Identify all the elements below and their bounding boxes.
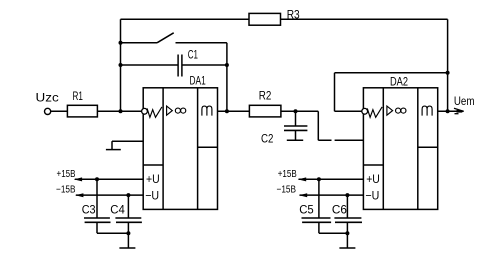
wire DA2 input bend vertical [317, 111, 319, 140]
svg-text:R2: R2 [259, 89, 272, 103]
op-amp DA1 divider 1 [162, 88, 164, 210]
symbol M output field DA1 [202, 106, 212, 116]
node C5 tap [317, 177, 321, 181]
symbol amplifier triangle DA1 [167, 106, 173, 115]
wire C2 upper stub [295, 111, 297, 126]
pin circle DA1 input [142, 108, 148, 114]
svg-text:DA2: DA2 [390, 75, 408, 89]
svg-text:+U: +U [146, 172, 160, 186]
resistor R3 [249, 13, 281, 25]
wire ground bus C5-C6 [319, 232, 348, 234]
wire C1 branch right [182, 64, 227, 66]
wire ground stem right [346, 233, 348, 248]
arrow output [454, 108, 464, 111]
op-amp DA1 left-column power divider [143, 164, 163, 166]
wire DA1 output [218, 110, 250, 112]
wire ground stem [127, 233, 129, 248]
svg-text:−U: −U [365, 188, 379, 202]
wire DA2 output [438, 110, 464, 112]
wire top feedback horizontal left of R3 [121, 18, 250, 20]
node DA2 feedback tap [446, 71, 450, 75]
resistor R2 [249, 105, 281, 117]
symbol amplifier triangle DA2 [387, 106, 393, 115]
svg-text:−U: −U [145, 188, 159, 202]
svg-text:+U: +U [366, 172, 380, 186]
capacitor C4 [115, 218, 141, 222]
wire switch branch left [121, 42, 158, 44]
node C1 left tap [119, 63, 123, 67]
resistor R1 [67, 105, 97, 117]
svg-text:C6: C6 [332, 203, 347, 217]
arrow -15V left [75, 193, 83, 197]
op-amp DA1 body [143, 88, 217, 210]
svg-text:C1: C1 [188, 48, 198, 62]
svg-text:C3: C3 [82, 202, 96, 216]
wire -U supply DA2 [300, 194, 364, 196]
wire C1 branch left [121, 64, 179, 66]
capacitor C2 [284, 126, 307, 130]
wire right vertical from top wire to output node [447, 19, 449, 111]
capacitor C3 [84, 218, 111, 222]
svg-text:+15В: +15В [278, 169, 297, 180]
wire left feedback vertical [120, 19, 122, 111]
svg-text:−15В: −15В [277, 184, 297, 195]
op-amp DA2 divider 1 [382, 88, 384, 210]
svg-text:C2: C2 [261, 132, 274, 146]
symbol infinity DA1 [175, 108, 180, 113]
wire DA2 feedback vertical [334, 73, 336, 112]
wire ground bus C3-C4 [97, 232, 128, 234]
arrow +15V left [74, 177, 82, 181]
symbol M output field DA2 [422, 106, 432, 116]
node output [446, 109, 450, 113]
node ground bus right [345, 231, 349, 235]
wire +U supply DA1 [75, 178, 143, 180]
op-amp DA2 divider 2 [417, 88, 419, 210]
wire DA2 feedback horizontal [335, 72, 448, 74]
svg-text:Uzc: Uzc [36, 91, 59, 105]
wire C5 lower stub [318, 222, 320, 233]
wire top feedback horizontal right of R3 [281, 18, 448, 20]
node C3 tap [95, 177, 99, 181]
node C4 tap [126, 193, 130, 197]
node switch tap [119, 41, 123, 45]
wire C4 down [127, 195, 129, 218]
node C2 tap [294, 109, 298, 113]
op-amp DA1 right-column divider [198, 146, 218, 148]
op-amp DA2 body [363, 88, 437, 210]
wire input to R1 [51, 110, 68, 112]
capacitor C6 [334, 218, 362, 222]
node ground bus [126, 231, 130, 235]
wire C6 lower stub [346, 222, 348, 233]
node C1 right tap [225, 63, 229, 67]
wire switch branch right [176, 42, 227, 44]
wire C6 down [346, 195, 348, 218]
op-amp DA1 divider 2 [197, 88, 199, 210]
wire -U supply DA1 [76, 194, 143, 196]
svg-text:R1: R1 [73, 89, 84, 103]
terminal input circle [45, 108, 51, 114]
svg-text:C5: C5 [299, 203, 314, 217]
node C6 tap [345, 193, 349, 197]
wire DA1 feedback vertical [226, 43, 228, 112]
wire C3 down [96, 179, 98, 218]
wire R2 to bend [281, 110, 318, 112]
node DA1 output feedback tap [225, 109, 229, 113]
wire C3 lower stub [96, 222, 98, 233]
wire R1 to DA1 input [97, 110, 141, 112]
arrow -15V right [299, 193, 307, 197]
wire DA1 second input [112, 140, 143, 142]
symbol infinity DA2 [396, 108, 401, 113]
wire +U supply DA2 [299, 178, 364, 180]
svg-text:−15В: −15В [56, 184, 76, 195]
node summing input DA1 [119, 109, 123, 113]
ground bar supply DA1 [119, 247, 135, 249]
switch SA arm [157, 33, 174, 43]
capacitor C5 [302, 218, 332, 222]
wire C4 lower stub [127, 222, 129, 233]
svg-text:DA1: DA1 [190, 74, 206, 88]
symbol W integrator DA1 [147, 107, 162, 117]
svg-text:Uem: Uem [454, 94, 475, 108]
wire C5 down [318, 179, 320, 218]
wire C2 lower stub [295, 130, 297, 140]
wire DA2 second input horizontal [318, 139, 363, 141]
svg-text:C4: C4 [110, 202, 125, 216]
ground bar DA1 input [106, 149, 121, 151]
wire DA2 feedback to input [335, 110, 362, 112]
arrow +15V right [298, 177, 306, 181]
pin circle DA2 input [362, 108, 368, 114]
op-amp DA2 left-column power divider [363, 164, 383, 166]
ground bar supply DA2 [339, 247, 355, 249]
ground bar C2 [287, 139, 303, 141]
wire ground riser DA1 input [111, 141, 113, 149]
op-amp DA2 right-column divider [418, 146, 438, 148]
svg-text:+15В: +15В [57, 169, 76, 180]
capacitor C1 [178, 55, 182, 77]
symbol W integrator DA2 [367, 107, 382, 117]
